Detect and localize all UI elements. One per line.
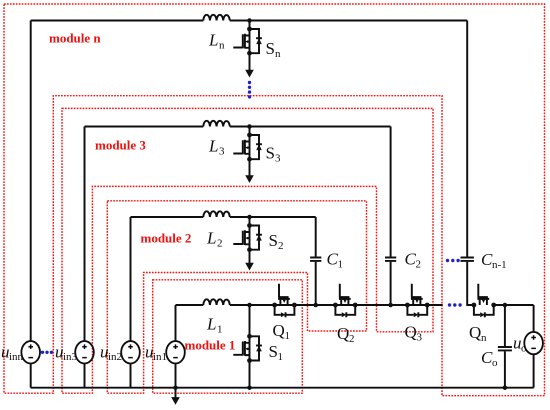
wire: module 1 top rail / switching bus xyxy=(176,304,443,306)
source uo xyxy=(533,305,535,332)
wire: module 2 left leg xyxy=(130,217,132,342)
svg-text:3: 3 xyxy=(275,153,281,165)
wire: bus from Qn to output xyxy=(494,304,534,306)
svg-text:Q: Q xyxy=(469,323,481,342)
svg-text:1: 1 xyxy=(338,259,344,271)
svg-text:n-1: n-1 xyxy=(492,259,507,271)
node: S1 tap xyxy=(247,303,252,308)
transistor S1 xyxy=(233,334,262,363)
wire: S1 drain stub xyxy=(249,305,251,336)
inductor L2 xyxy=(203,211,230,217)
transistor Qn xyxy=(472,284,497,318)
wire: module 2 right leg down to C1 xyxy=(315,217,317,257)
node: S3 tap xyxy=(247,124,252,129)
capacitor Co xyxy=(504,305,506,346)
capacitor C2 xyxy=(385,258,396,261)
svg-text:2: 2 xyxy=(416,259,422,271)
svg-text:L: L xyxy=(208,31,218,50)
inductor Ln xyxy=(203,15,230,21)
svg-text:n: n xyxy=(219,40,225,52)
svg-text:in3: in3 xyxy=(63,351,78,363)
wire: S3 drain stub xyxy=(249,127,251,136)
svg-text:2: 2 xyxy=(349,333,355,345)
wire: S3 source with arrow xyxy=(249,159,251,175)
wire: module 2 top rail xyxy=(131,216,316,218)
capacitor Cn-1 xyxy=(460,258,473,261)
svg-text:L: L xyxy=(206,315,216,334)
source u_in1 xyxy=(166,341,185,363)
svg-text:inn: inn xyxy=(9,351,24,363)
dots: between sources xyxy=(41,351,53,354)
wire: module 3 right leg down to C2 xyxy=(390,127,392,257)
module 3 dashed boundary box xyxy=(62,108,433,393)
svg-text:in2: in2 xyxy=(108,351,122,363)
wire: S2 drain stub xyxy=(249,217,251,226)
svg-text:L: L xyxy=(206,229,216,248)
svg-text:o: o xyxy=(492,357,498,369)
module 2 dashed boundary box xyxy=(107,201,366,393)
svg-text:in1: in1 xyxy=(153,351,167,363)
transistor Q1 xyxy=(272,284,297,318)
wire: Sn drain stub xyxy=(249,21,251,30)
module 1 dashed boundary box xyxy=(153,280,303,393)
dots: bus continuation before Qn xyxy=(448,303,462,306)
svg-text:n: n xyxy=(275,48,281,60)
wire: module n left leg xyxy=(30,21,32,342)
capacitor C1 xyxy=(310,258,321,261)
svg-text:module 2: module 2 xyxy=(141,231,192,246)
dots: continuation below Sn xyxy=(248,81,251,99)
svg-text:1: 1 xyxy=(217,324,223,336)
source u_in2 xyxy=(121,341,140,363)
svg-text:2: 2 xyxy=(278,240,284,252)
svg-text:2: 2 xyxy=(217,238,223,250)
wire: bottom ground rail xyxy=(31,387,534,389)
wire: module 3 left leg xyxy=(84,127,86,342)
node: Sn tap xyxy=(247,18,252,23)
transistor Q2 xyxy=(333,284,358,318)
svg-text:module 3: module 3 xyxy=(95,138,146,153)
svg-text:n: n xyxy=(481,332,487,344)
source u_in3 xyxy=(75,341,94,363)
svg-text:S: S xyxy=(269,231,278,250)
wire: S2 source with arrow xyxy=(249,250,251,263)
wire: Sn source with arrow xyxy=(249,53,251,70)
svg-text:Q: Q xyxy=(337,324,349,343)
wire: module 1 left leg xyxy=(175,305,177,342)
svg-text:S: S xyxy=(266,144,275,163)
svg-text:module n: module n xyxy=(49,31,101,46)
transistor Sn xyxy=(233,27,262,56)
transistor S2 xyxy=(233,223,262,252)
inductor L3 xyxy=(203,121,230,127)
svg-text:3: 3 xyxy=(417,332,423,344)
svg-text:1: 1 xyxy=(285,330,291,342)
source u_inn xyxy=(21,341,40,363)
inductor L1 xyxy=(203,299,230,305)
node: S2 tap xyxy=(247,215,252,220)
transistor S3 xyxy=(233,133,262,162)
svg-text:Q: Q xyxy=(405,323,417,342)
wire: S1 source to ground rail xyxy=(249,361,251,388)
svg-text:3: 3 xyxy=(219,146,225,158)
svg-text:module 1: module 1 xyxy=(185,338,236,353)
svg-text:L: L xyxy=(208,137,218,156)
svg-text:1: 1 xyxy=(278,351,284,363)
svg-text:o: o xyxy=(521,343,527,355)
wire: module 3 top rail xyxy=(85,126,391,128)
wire: module n right leg down to Cn-1 xyxy=(466,21,468,257)
svg-text:S: S xyxy=(266,39,275,58)
transistor Q3 xyxy=(405,284,430,318)
ground arrow xyxy=(175,388,177,398)
wire: module n top rail xyxy=(31,20,468,22)
dots: before Cn-1 xyxy=(446,259,460,262)
svg-text:Q: Q xyxy=(273,321,285,340)
